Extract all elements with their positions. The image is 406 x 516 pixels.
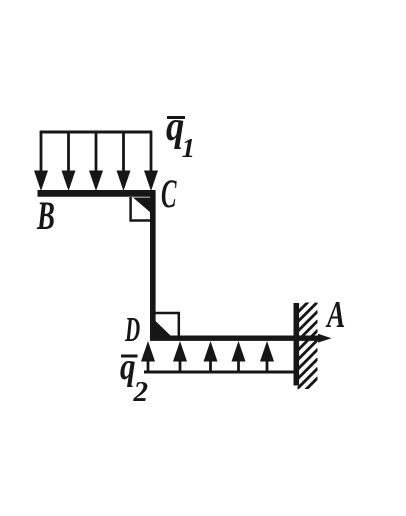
load q1 arrow stem 5	[150, 131, 153, 172]
load q2 arrow stem 5	[266, 361, 269, 373]
load q1 arrowhead 1	[34, 171, 48, 192]
load q1 arrowhead 2	[62, 171, 76, 192]
joint C corner square	[131, 197, 153, 221]
fixed support wall line at A	[293, 303, 299, 386]
load q1 arrowhead 4	[117, 171, 131, 192]
member CD	[150, 191, 156, 340]
svg-text:B: B	[36, 195, 55, 238]
load q1 arrow stem 2	[67, 131, 70, 172]
load q2 arrow stem 3	[209, 361, 212, 373]
load q1 arrow stem 4	[122, 131, 125, 172]
svg-text:C: C	[161, 173, 177, 217]
load q1 arrow stem 1	[40, 131, 43, 172]
joint C gusset triangle	[133, 198, 153, 215]
load q2 arrowhead 4	[232, 341, 246, 362]
beam BC	[38, 190, 156, 197]
svg-text:A: A	[325, 294, 345, 336]
load q2 arrow stem 2	[179, 361, 182, 373]
load q1 arrowhead 3	[89, 171, 103, 192]
load q2 arrowhead 5	[260, 341, 274, 362]
load q1 arrow stem 3	[95, 131, 98, 172]
joint D corner square	[155, 313, 179, 337]
svg-text:2: 2	[133, 376, 149, 408]
distributed load q1 top line	[40, 131, 152, 134]
load q2 arrowhead 2	[173, 341, 187, 362]
svg-text:1: 1	[182, 133, 196, 163]
load q2 arrowhead 3	[204, 341, 218, 362]
svg-text:D: D	[124, 311, 140, 350]
label q2 : overbar	[121, 355, 138, 358]
joint D gusset triangle	[155, 321, 172, 338]
load q2 arrow stem 1	[147, 361, 150, 373]
distributed load q2 bottom line	[144, 371, 296, 374]
beam DA	[150, 336, 321, 341]
load q1 arrowhead 5	[144, 171, 158, 192]
load q2 arrowhead 1	[141, 341, 155, 362]
load q2 arrow stem 4	[237, 361, 240, 373]
label q1 : overbar	[167, 116, 185, 119]
beam end arrowhead at A	[318, 334, 332, 343]
